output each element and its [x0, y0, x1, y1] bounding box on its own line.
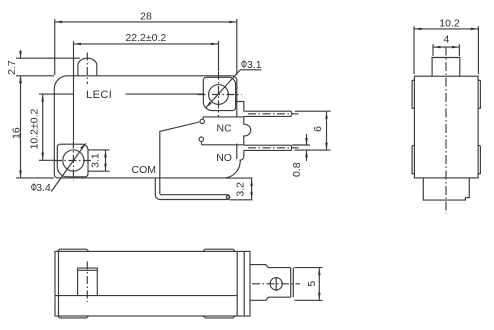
- dim 16 bottom extension: [16, 177, 54, 179]
- COM terminal bent pin: [160, 132, 228, 195]
- bottom view parting line: [55, 295, 237, 297]
- svg-text:2.7: 2.7: [6, 60, 18, 75]
- dim 3.2 extension lines: [226, 178, 253, 200]
- arrows dim 6: [325, 112, 328, 119]
- NC contact circle: [200, 119, 204, 123]
- side view terminal block: [423, 178, 469, 200]
- dim 22.2 line: [74, 43, 218, 45]
- svg-text:LECI: LECI: [86, 89, 112, 101]
- dim 5 line: [318, 268, 320, 300]
- dim 2.7 extension lines: [16, 58, 80, 76]
- NC contact connector: [202, 117, 204, 119]
- svg-text:NC: NC: [217, 122, 233, 134]
- arrows dim 10.2: [41, 95, 44, 102]
- side view centerline: [445, 47, 447, 214]
- side tab upper-left: [412, 80, 414, 108]
- dim 10.2 extension lines: [39, 94, 203, 160]
- arrows dim 22.2: [74, 43, 81, 46]
- interior body right edge segments: [236, 102, 238, 160]
- mounting hole pad bottom-left: [57, 144, 88, 177]
- NC pin centerline: [248, 113, 299, 115]
- phi symbol of 3.4: [32, 183, 37, 191]
- lever hole vertical tick: [275, 277, 277, 291]
- arrows dim 28: [55, 21, 62, 24]
- crosshair bottom-left hole: [54, 160, 92, 162]
- mounting hole circle top-right (phi 3.1): [209, 85, 229, 105]
- side view plunger button: [432, 58, 460, 77]
- svg-text:28: 28: [140, 11, 152, 23]
- arrow leader phi3.4: [80, 143, 86, 149]
- dim 0.8 line (outside arrows): [306, 134, 308, 161]
- dim 16 line: [20, 76, 22, 177]
- dim 6 extension lines: [294, 111, 330, 150]
- bottom view rib segments: [58, 249, 236, 318]
- mounting hole pad top-right: [203, 77, 235, 110]
- dim 0.8 extension line top: [292, 144, 310, 146]
- svg-text:5: 5: [306, 281, 318, 287]
- bottom view main outline: [55, 251, 250, 316]
- svg-text:NO: NO: [216, 152, 232, 164]
- svg-text:10.2±0.2: 10.2±0.2: [28, 108, 40, 149]
- dim 10.2 line: [42, 95, 44, 160]
- svg-text:3.1: 3.1: [247, 59, 262, 71]
- switch body outline (front view): [54, 76, 251, 178]
- svg-text:10.2: 10.2: [439, 17, 460, 29]
- svg-text:22.2±0.2: 22.2±0.2: [125, 32, 166, 44]
- bottom view right verticals: [237, 251, 244, 316]
- lever (common arm): [159, 122, 199, 132]
- NO fixed contact line: [202, 144, 244, 146]
- lever end cap: [291, 268, 294, 298]
- svg-text:COM: COM: [132, 164, 157, 176]
- NO terminal pin: [244, 145, 292, 150]
- phi symbol of 3.1: [242, 60, 247, 68]
- dim 10.2 line: [415, 28, 478, 30]
- side tab lower-right: [478, 145, 480, 174]
- NO contact circle: [199, 137, 203, 141]
- plunger rect inner line: [78, 269, 98, 271]
- plunger centerline: [86, 262, 88, 303]
- bottom view plunger rect: [78, 268, 98, 296]
- arrow leader phi3.1: [206, 102, 212, 108]
- dim 5 extension lines: [295, 268, 323, 301]
- NC terminal pin: [244, 111, 292, 116]
- svg-text:6: 6: [312, 126, 324, 132]
- mounting hole circle bottom-left (phi 3.4): [63, 150, 84, 171]
- bottom view left inner line: [58, 251, 60, 316]
- arrows dim 10.2: [415, 28, 422, 31]
- lever hole circle: [270, 278, 282, 290]
- dim 28 line: [55, 21, 236, 23]
- arrows dim 5: [318, 268, 321, 275]
- lever centerline horizontal: [252, 283, 300, 285]
- dim 28 extension lines: [55, 19, 237, 75]
- dim 22.2 extension lines: [74, 41, 219, 140]
- dim 10.2 extension lines: [414, 26, 478, 74]
- leader line phi3.1: [206, 70, 261, 108]
- plunger button (front view): [78, 58, 97, 76]
- svg-text:0.8: 0.8: [291, 162, 303, 177]
- side tab upper-right: [478, 80, 480, 108]
- dim 4 line: [434, 46, 459, 48]
- arrows dim 3.2: [250, 179, 253, 186]
- side tab lower-left: [412, 145, 414, 174]
- svg-text:3.1: 3.1: [90, 153, 102, 168]
- svg-text:16: 16: [10, 127, 22, 139]
- arrows dim 0.8 outside: [305, 138, 308, 145]
- NC fixed contact line: [203, 116, 244, 118]
- dim 2.7 line (outside arrows): [20, 50, 22, 84]
- arrows dim 3.1: [104, 150, 107, 157]
- arrowheads front view: [19, 21, 328, 200]
- NO pin centerline: [248, 147, 299, 149]
- dim 3.1 line: [105, 150, 107, 170]
- NO contact connector: [201, 141, 203, 144]
- arrows dim 16: [19, 76, 22, 83]
- arrows dim 4: [434, 46, 441, 49]
- dim 3.1 extension lines: [89, 150, 110, 171]
- leader line phi3.4: [51, 143, 85, 191]
- bottom view lever extension: [250, 265, 291, 301]
- svg-text:3.2: 3.2: [234, 182, 246, 197]
- dim 4 extension lines: [433, 44, 459, 56]
- side view body: [414, 76, 478, 178]
- arrows dim 2.7 outside: [19, 51, 22, 58]
- COM pin tip hook: [226, 196, 229, 199]
- svg-text:3.4: 3.4: [36, 182, 51, 194]
- svg-text:4: 4: [443, 34, 449, 46]
- dim 3.2 line: [251, 179, 253, 199]
- button centerline: [86, 53, 88, 85]
- crosshair top-right hole: [198, 94, 242, 96]
- COM pin tip: [227, 195, 229, 200]
- dim 6 line: [326, 112, 328, 150]
